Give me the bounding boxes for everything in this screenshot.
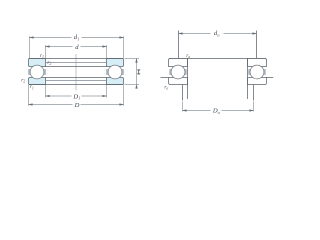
extension line D right xyxy=(123,85,125,106)
extension line Da right xyxy=(253,102,255,112)
shaft washer top-right cut xyxy=(107,59,124,67)
shaft stub right side xyxy=(256,31,258,59)
label r2 left xyxy=(21,78,25,84)
label r1 bottom xyxy=(30,84,34,90)
svg-text:ra: ra xyxy=(164,84,168,90)
svg-text:r1: r1 xyxy=(30,84,34,90)
shaft washer top face line xyxy=(29,58,124,60)
label D1 xyxy=(72,93,80,100)
cage marks mounted left ball xyxy=(169,69,186,75)
shaft stub left side xyxy=(178,31,180,59)
label ra top xyxy=(186,53,190,59)
extension line Da left xyxy=(182,102,184,112)
svg-text:d1: d1 xyxy=(74,34,80,41)
shaft washer right (mounted) xyxy=(248,59,267,67)
extension line d1 right xyxy=(123,36,125,58)
shaft washer top-left cut xyxy=(29,59,46,67)
extension line D left xyxy=(28,85,30,106)
centerline xyxy=(75,54,77,91)
label Da xyxy=(212,108,221,115)
dimension Da xyxy=(183,110,254,112)
ball right xyxy=(108,65,122,79)
extension line D1 right xyxy=(106,85,108,97)
svg-text:r1: r1 xyxy=(40,53,44,59)
svg-text:r2: r2 xyxy=(21,78,25,84)
svg-text:ra: ra xyxy=(186,53,190,59)
cage marks right ball xyxy=(106,69,124,75)
label H xyxy=(137,70,140,74)
cage marks left ball xyxy=(28,69,46,75)
svg-text:D1: D1 xyxy=(72,93,80,100)
shoulder face line xyxy=(169,58,266,60)
dimension H xyxy=(136,59,138,85)
mounted ball right xyxy=(250,65,264,79)
dimension D1 xyxy=(46,95,107,97)
dimension d1 xyxy=(30,37,124,39)
housing washer bottom face line xyxy=(29,84,124,86)
housing washer bottom-left cut xyxy=(29,78,46,85)
label da xyxy=(214,30,220,37)
housing washer left (mounted) xyxy=(169,78,188,85)
svg-text:r2: r2 xyxy=(47,60,51,66)
label ra bottom xyxy=(164,84,168,90)
extension line D1 left xyxy=(45,85,47,97)
label r1 top xyxy=(40,53,44,59)
shaft washer left (mounted) xyxy=(169,59,188,67)
dimension da xyxy=(179,33,257,35)
housing washer top edge line xyxy=(46,77,107,79)
extension line d right xyxy=(106,45,108,58)
label d1 xyxy=(74,34,80,41)
label D xyxy=(74,102,80,109)
extension line H top xyxy=(125,58,140,60)
extension line d left xyxy=(45,45,47,58)
housing washer groove shoulder line xyxy=(46,80,107,82)
housing bore wall left xyxy=(182,85,184,101)
svg-text:Da: Da xyxy=(212,108,221,115)
housing washer bottom-right cut xyxy=(107,78,124,85)
shaft washer groove shoulder line xyxy=(46,62,107,64)
extension line d1 left xyxy=(29,36,31,58)
svg-text:da: da xyxy=(214,30,220,37)
svg-text:d: d xyxy=(75,44,79,51)
housing washer right (mounted) xyxy=(248,78,267,85)
label r2 top xyxy=(47,60,51,66)
shaft side left below xyxy=(187,59,189,100)
shaft side right below xyxy=(247,59,249,100)
cage marks mounted right ball xyxy=(248,69,265,75)
mounted ball left xyxy=(171,65,185,79)
housing face left xyxy=(161,77,169,79)
housing bore wall right xyxy=(253,85,255,101)
svg-text:D: D xyxy=(74,102,80,109)
shaft washer bottom edge line xyxy=(46,66,107,68)
dimension d xyxy=(46,46,107,48)
extension line H bottom xyxy=(125,84,140,86)
housing face right xyxy=(267,77,274,79)
ball left xyxy=(30,65,44,79)
label d xyxy=(75,44,79,51)
dimension D xyxy=(29,104,124,106)
